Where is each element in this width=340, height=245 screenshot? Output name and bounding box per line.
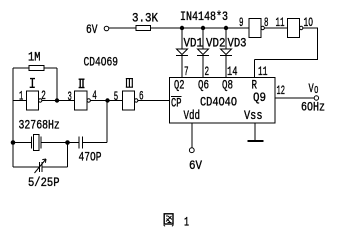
svg-text:1M: 1M: [28, 50, 41, 65]
svg-text:6OHz: 6OHz: [301, 100, 325, 115]
svg-text:Q2: Q2: [174, 78, 185, 93]
pin number 4: [92, 88, 97, 103]
svg-text:6V: 6V: [189, 158, 202, 173]
terminal circle 6V top: [104, 26, 109, 31]
label 6V bottom: [189, 158, 202, 173]
junction node A (feedback): [55, 98, 59, 102]
pin number 1: [19, 89, 23, 104]
pin number 2: [205, 64, 210, 79]
svg-text:6V: 6V: [86, 22, 98, 37]
svg-text:9: 9: [239, 15, 244, 30]
wire to crystal left: [13, 142, 32, 144]
svg-text:VD3: VD3: [228, 36, 247, 51]
terminal circle Vo: [314, 96, 318, 100]
caption figure 1 (drawn CJK glyph): [164, 214, 174, 227]
svg-text:5/25P: 5/25P: [28, 175, 60, 190]
pin number 11 gate input: [276, 15, 285, 30]
wire Q9 output: [275, 97, 314, 99]
svg-text:5: 5: [114, 89, 118, 104]
svg-text:6: 6: [139, 89, 144, 104]
capacitor C 470P: [79, 137, 83, 149]
svg-text:CD4O69: CD4O69: [84, 55, 119, 70]
label Q9: [253, 90, 266, 105]
svg-text:1: 1: [184, 215, 189, 230]
label 60Hz: [301, 100, 325, 115]
svg-text:11: 11: [276, 15, 285, 30]
svg-text:CD4O4O: CD4O4O: [200, 94, 237, 109]
wire Vdd to 6V terminal: [191, 123, 193, 148]
label VD2: [206, 36, 226, 51]
wire gate IV output to gate V input: [265, 27, 288, 29]
wire 470P right up to node B: [83, 101, 108, 143]
wire 1M left end to left column: [13, 67, 29, 69]
svg-text:Q9: Q9: [253, 90, 266, 105]
wire gate V output to CD4040 reset pin 11: [255, 28, 319, 78]
junction node VD1 top: [180, 26, 184, 30]
wire bottom loop left: [13, 166, 39, 168]
label Vdd: [184, 108, 201, 123]
junction node VD3 top: [224, 26, 228, 30]
wire input to inverter I: [13, 100, 27, 102]
inverter gate IV (CD4069 pins 9-8): [249, 19, 264, 38]
pin number 3: [68, 89, 72, 104]
label 3.3K: [132, 11, 158, 26]
svg-text:VD2: VD2: [206, 36, 226, 51]
junction node C crystal right: [65, 140, 70, 145]
pin number 14: [227, 64, 238, 79]
inverter II (CD4069 pins 3-4): [75, 91, 91, 110]
pin number 10: [304, 15, 314, 30]
pin number 6: [139, 89, 144, 104]
label Q8: [222, 78, 233, 93]
svg-text:1: 1: [19, 89, 23, 104]
label CD4069: [84, 55, 119, 70]
terminal circle 6V bottom: [189, 148, 194, 153]
label R: [252, 78, 258, 93]
pin number 9: [239, 15, 244, 30]
wire 1M right end down to node A: [44, 68, 57, 101]
label Vss: [244, 108, 263, 123]
label Q6: [198, 78, 209, 93]
wire inverter I output to inverter II input: [42, 100, 75, 102]
wire inverter III output to CD4040 CP: [138, 100, 170, 102]
junction node B (to 470P): [105, 98, 109, 102]
resistor R 1M body: [29, 66, 44, 71]
pin number 5: [114, 89, 118, 104]
svg-text:12: 12: [277, 83, 286, 98]
junction node crystal left: [11, 140, 16, 145]
svg-text:Q6: Q6: [198, 78, 209, 93]
wire Vss to ground: [254, 123, 256, 141]
wire left column vertical: [12, 68, 14, 167]
label IN4148*3: [180, 9, 228, 24]
svg-text:47OP: 47OP: [79, 149, 102, 164]
label CD4040: [200, 94, 237, 109]
label roman I: [30, 79, 35, 88]
resistor R 3.3K body: [136, 26, 151, 31]
label VD1: [184, 36, 204, 51]
svg-text:IN4148*3: IN4148*3: [180, 9, 228, 24]
svg-text:o: o: [314, 82, 319, 97]
wire bottom loop right: [42, 143, 68, 168]
ground: [248, 140, 264, 142]
svg-text:CP: CP: [171, 96, 182, 111]
inverter I (CD4069 pins 1-2): [27, 91, 42, 110]
diode VD2: [197, 28, 209, 78]
svg-text:VD1: VD1: [184, 36, 204, 51]
label VD3: [228, 36, 247, 51]
pin number 7: [184, 64, 189, 79]
svg-text:32768Hz: 32768Hz: [19, 118, 60, 133]
svg-text:Vdd: Vdd: [184, 108, 201, 123]
svg-text:7: 7: [184, 64, 189, 79]
inverter gate V (CD4069 pins 11-10): [288, 19, 303, 38]
svg-text:11: 11: [258, 64, 268, 79]
label 32768Hz: [19, 118, 60, 133]
pin number 12: [277, 83, 286, 98]
diode VD1: [176, 28, 188, 78]
label CP with overline: [171, 96, 182, 111]
wire top rail from 6V terminal to resistor: [109, 27, 136, 29]
label Vo: [309, 81, 319, 97]
label Q2: [174, 78, 185, 93]
svg-text:Vss: Vss: [244, 108, 263, 123]
junction node VD2 top: [201, 26, 205, 30]
trimmer capacitor 5/25P: [35, 159, 47, 173]
crystal X 32768Hz: [32, 135, 42, 151]
label 470P: [79, 149, 102, 164]
pin number 2: [41, 88, 46, 103]
label roman III: [126, 79, 133, 88]
label roman II: [79, 79, 85, 87]
IC U1 CD4040 box: [170, 78, 276, 124]
svg-text:3.3K: 3.3K: [132, 11, 158, 26]
svg-text:Q8: Q8: [222, 78, 233, 93]
wire top rail from resistor to gate input pin 9: [151, 27, 250, 29]
diode VD3: [220, 28, 232, 78]
label 5/25P: [28, 175, 60, 190]
label 1M: [28, 50, 41, 65]
pin number 8: [264, 15, 269, 30]
wire crystal right to node C: [41, 142, 79, 144]
caption number 1: [184, 215, 189, 230]
svg-text:3: 3: [68, 89, 72, 104]
wire inverter II output to inverter III input: [91, 100, 123, 102]
label 6V top supply: [86, 22, 98, 37]
pin number 11 reset: [258, 64, 268, 79]
inverter III (CD4069 pins 5-6): [123, 91, 138, 110]
